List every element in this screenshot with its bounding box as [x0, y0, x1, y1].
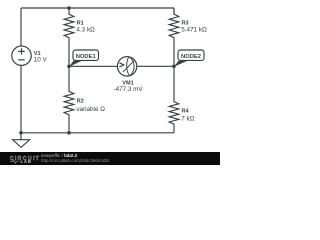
ground	[13, 133, 30, 148]
node NODE1 flag pointer	[69, 61, 82, 67]
svg-text:LAB: LAB	[21, 159, 32, 164]
svg-text:R4: R4	[182, 109, 190, 115]
wire bottom rail	[21, 132, 174, 134]
junction dot ground	[19, 131, 23, 135]
watermark CircuitLab logo	[10, 156, 41, 164]
resistor R4	[169, 66, 179, 133]
svg-text:10 V: 10 V	[34, 57, 48, 64]
svg-text:NODE1: NODE1	[76, 54, 97, 60]
junction dot NODE2	[172, 65, 176, 69]
node NODE1 label box	[73, 50, 99, 60]
voltmeter VM1	[117, 57, 136, 76]
voltage source V1	[12, 46, 31, 65]
node NODE2 label box	[178, 50, 204, 60]
junction dot R2 bottom	[67, 131, 71, 135]
watermark bar	[0, 152, 220, 165]
node NODE2 flag pointer	[174, 61, 188, 67]
svg-text:5.471 kΩ: 5.471 kΩ	[181, 27, 207, 34]
svg-text:NODE2: NODE2	[181, 54, 201, 60]
svg-text:-477.3 mV: -477.3 mV	[113, 86, 143, 93]
wire middle left (NODE1 to VM1)	[69, 65, 117, 67]
watermark text	[41, 153, 110, 163]
resistor R1	[64, 8, 74, 66]
svg-text:R2: R2	[77, 98, 84, 104]
junction dot top R1	[67, 6, 71, 10]
junction dot NODE1	[67, 65, 71, 69]
svg-text:4.3 kΩ: 4.3 kΩ	[76, 27, 95, 34]
wire right rail upper	[173, 8, 175, 15]
svg-text:variable Ω: variable Ω	[76, 106, 105, 113]
wire left rail upper	[20, 8, 22, 46]
svg-text:http://circuitlab.com/c6bc39d4: http://circuitlab.com/c6bc39d44d2r	[41, 158, 110, 163]
resistor R3	[169, 8, 179, 66]
wire left rail lower	[20, 66, 22, 133]
wire middle right (VM1 to NODE2)	[137, 65, 174, 67]
svg-text:7 kΩ: 7 kΩ	[181, 116, 194, 123]
resistor R2	[64, 66, 74, 133]
wire top rail	[21, 7, 174, 9]
